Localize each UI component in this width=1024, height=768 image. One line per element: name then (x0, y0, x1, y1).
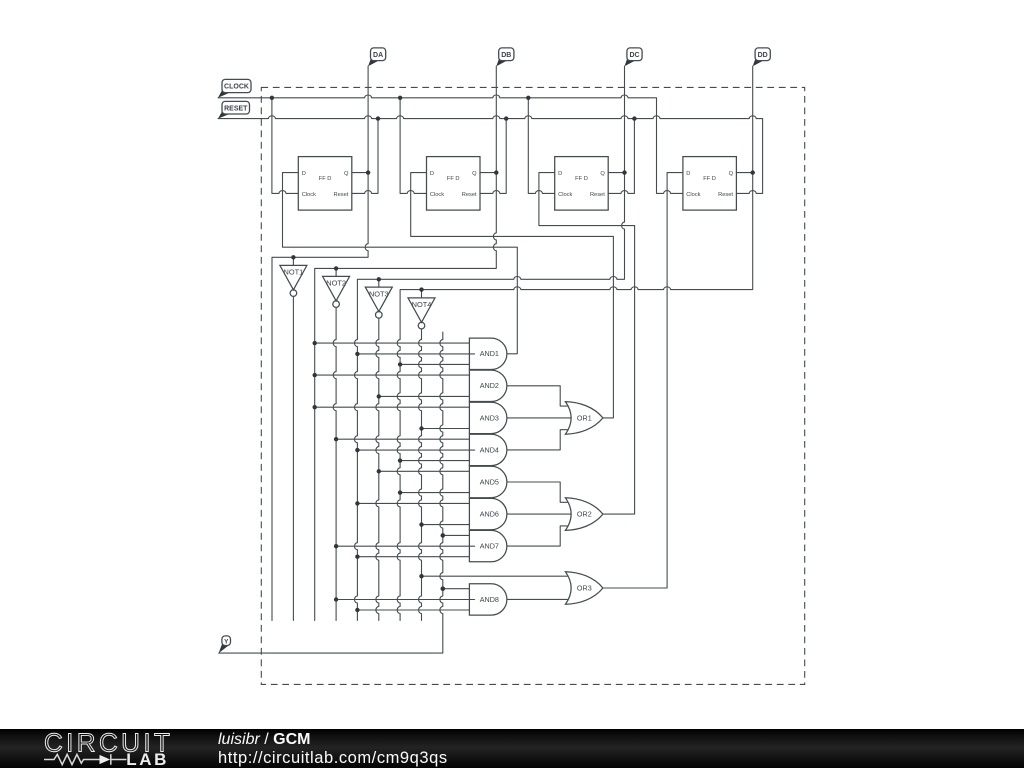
AND gate AND6 (469, 498, 507, 529)
svg-text:Q: Q (344, 171, 349, 177)
svg-text:DB: DB (501, 52, 511, 59)
flag DD (753, 56, 766, 66)
wire AND1 input row 3 (400, 363, 469, 365)
inverter NOT2 (323, 276, 350, 307)
svg-text:DC: DC (629, 52, 639, 59)
svg-text:NOT2: NOT2 (326, 279, 346, 288)
wire AND1 middle pin stub (469, 353, 474, 355)
wire AND7 input row 2 (336, 545, 475, 547)
wire reset branch FF3 (608, 119, 634, 194)
wire reset branch FF1 (352, 119, 378, 194)
wire AND2 out to OR1 (507, 386, 567, 406)
wire NOT1 input stub (292, 257, 294, 265)
wire AND6 out to OR2 (507, 513, 571, 515)
flip-flop FF2 (FF D) (427, 157, 481, 211)
svg-text:D: D (302, 171, 306, 177)
flip-flop FF3 (FF D) (555, 157, 609, 211)
wire NOT3 output rail (376, 318, 379, 620)
svg-text:NOT1: NOT1 (284, 268, 304, 277)
svg-text:D: D (686, 171, 690, 177)
wire D2 net (OR1 out to FF2 D) (411, 173, 614, 418)
svg-text:Clock: Clock (558, 192, 572, 198)
svg-text:FF D: FF D (703, 176, 716, 182)
wire NOT4 input stub (421, 290, 423, 298)
dashed schematic border (261, 87, 804, 684)
wire AND2 input row 3 (379, 395, 470, 397)
wire AND8 input row 2 (336, 599, 475, 601)
wire NOT2 input stub (335, 268, 337, 276)
flag CLOCK (218, 88, 233, 98)
wire AND1 input row 2 (357, 353, 474, 355)
wire NOT4 output rail (419, 329, 422, 621)
svg-text:Clock: Clock (302, 192, 316, 198)
flag DA (368, 56, 381, 66)
svg-text:Q: Q (600, 171, 605, 177)
wire OR3 top input row (from NOT4 rail) (422, 575, 568, 577)
flag DB (496, 56, 509, 66)
svg-text:AND7: AND7 (480, 542, 499, 551)
svg-text:CLOCK: CLOCK (224, 84, 249, 91)
wire reset branch FF2 (480, 119, 506, 194)
AND gate AND5 (469, 466, 507, 497)
wire AND3 input row 3 (422, 428, 470, 430)
flag RESET (218, 110, 233, 119)
wire DD net (397, 66, 753, 620)
flip-flop FF1 (FF D) (298, 157, 352, 211)
wire AND5 out to OR2 (507, 482, 567, 502)
svg-text:RESET: RESET (224, 105, 248, 112)
wire AND8 out to OR3 (507, 598, 567, 600)
wire AND3 input row 1 (315, 406, 470, 408)
svg-text:AND4: AND4 (480, 445, 499, 454)
wire NOT2 output rail (333, 307, 336, 620)
svg-text:AND6: AND6 (480, 510, 499, 519)
wire AND7 input row 3 (357, 556, 469, 558)
flag DC (625, 56, 638, 66)
svg-text:Q: Q (472, 171, 477, 177)
wire Y net (219, 332, 443, 653)
OR gate OR1 (565, 402, 603, 435)
wire AND6 input row 1 (357, 502, 469, 504)
wire AND4 input row 3 (400, 460, 469, 462)
wire AND3 out to OR1 (507, 417, 571, 419)
wire AND4 out to OR1 (507, 430, 567, 450)
wire NOT1 output rail (292, 296, 294, 620)
inverter NOT3 (365, 287, 392, 318)
wire Q4 stub (736, 172, 752, 174)
inverter NOT4 (408, 298, 435, 329)
AND gate AND3 (469, 402, 507, 433)
svg-text:AND2: AND2 (480, 381, 499, 390)
wire Q2 stub (480, 172, 496, 174)
wire AND5 input row 1 (379, 470, 470, 472)
svg-text:Clock: Clock (430, 192, 444, 198)
wire D4 net (OR3 out to FF4 D) (603, 173, 683, 588)
svg-text:OR1: OR1 (577, 413, 592, 422)
svg-text:OR2: OR2 (577, 510, 592, 519)
svg-text:NOT4: NOT4 (412, 300, 432, 309)
wire DA net (272, 66, 368, 620)
svg-text:Reset: Reset (334, 192, 349, 198)
wire DC net (355, 66, 625, 620)
wire D3 net (OR2 out to FF3 D) (539, 173, 635, 514)
svg-text:Y: Y (224, 638, 229, 645)
wire Q1 stub (352, 172, 368, 174)
wire AND1 input row 1 (315, 342, 470, 344)
svg-text:D: D (430, 171, 434, 177)
OR gate OR2 (565, 498, 603, 531)
AND gate AND4 (469, 434, 507, 465)
svg-text:DA: DA (373, 52, 383, 59)
wire AND7 input row 1 (443, 534, 470, 536)
wire AND5 input row 3 (400, 492, 469, 494)
flip-flop FF4 (FF D) (683, 157, 737, 211)
svg-text:AND3: AND3 (480, 413, 499, 422)
wire AND7 middle pin stub (469, 545, 474, 547)
wire RESET net (218, 116, 763, 194)
AND gate AND2 (469, 370, 506, 401)
svg-text:FF D: FF D (575, 176, 588, 182)
wire AND8 input row 1 (443, 588, 470, 590)
wire AND8 middle pin stub (469, 599, 474, 601)
svg-text:NOT3: NOT3 (369, 289, 389, 298)
wire clock branch FF1 (272, 98, 298, 194)
svg-text:LAB: LAB (126, 750, 169, 768)
svg-text:DD: DD (758, 52, 768, 59)
wire CLOCK net (218, 95, 683, 193)
svg-text:FF D: FF D (319, 176, 332, 182)
wire DB net (315, 66, 497, 620)
svg-text:Q: Q (729, 171, 734, 177)
OR gate OR3 (565, 572, 603, 605)
svg-text:AND5: AND5 (480, 477, 499, 486)
svg-text:OR3: OR3 (577, 583, 592, 592)
svg-text:Reset: Reset (590, 192, 605, 198)
wire AND4 input row 1 (336, 438, 469, 440)
wire AND6 input row 3 (422, 524, 470, 526)
wire AND2 input row 1 (315, 374, 470, 376)
svg-text:Reset: Reset (718, 192, 733, 198)
svg-text:AND1: AND1 (480, 349, 499, 358)
AND gate AND7 (469, 530, 506, 561)
inverter NOT1 (280, 265, 307, 296)
wire clock branch FF3 (528, 98, 554, 194)
wire AND4 input row 2 (357, 449, 474, 451)
wire NOT3 input stub (378, 279, 380, 287)
wire clock branch FF2 (400, 98, 426, 194)
AND gate AND8 (469, 584, 507, 615)
svg-text:Clock: Clock (686, 192, 700, 198)
wire AND4 middle pin stub (469, 449, 474, 451)
wire Q3 stub (608, 172, 624, 174)
CircuitLab logo (0, 729, 190, 768)
svg-text:AND8: AND8 (480, 595, 499, 604)
svg-text:FF D: FF D (447, 176, 460, 182)
flag Y (219, 641, 230, 653)
AND gate AND1 (469, 338, 507, 369)
wire AND7 out to OR2 (507, 526, 567, 546)
svg-text:D: D (558, 171, 562, 177)
svg-text:Reset: Reset (462, 192, 477, 198)
wire D1 net (AND1 out to FF1 D) (283, 173, 518, 354)
wire AND8 input row 3 (357, 609, 469, 611)
